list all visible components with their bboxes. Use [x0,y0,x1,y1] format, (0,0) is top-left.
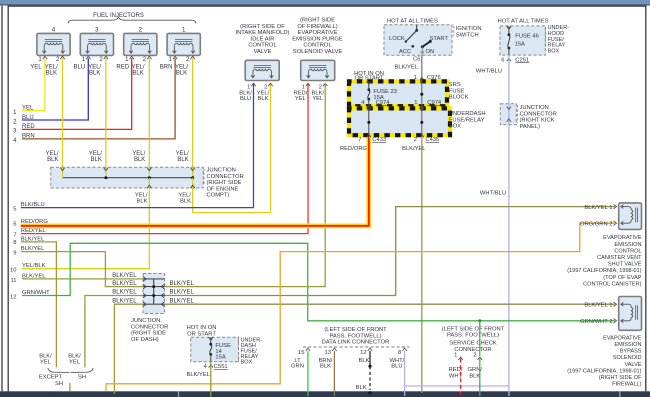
svg-text:(1997 CALIFORNIA, 1998-01): (1997 CALIFORNIA, 1998-01) [567,268,641,274]
svg-text:BLK/YEL: BLK/YEL [170,298,195,304]
service check connector label [442,326,505,353]
svg-text:OR START: OR START [187,331,216,337]
node label row 1 [13,105,34,116]
service check bracket [454,352,482,360]
svg-text:SHUT VALVE: SHUT VALVE [608,262,642,268]
wire RED/YEL purge pin1 to row7 [21,83,308,233]
svg-text:C974: C974 [376,100,391,106]
svg-text:CONNECTOR: CONNECTOR [520,111,557,117]
svg-text:BLU: BLU [240,96,251,102]
wire RED/ORG highlighted [21,137,369,226]
svg-text:BLK/YEL: BLK/YEL [22,273,46,279]
svg-text:12: 12 [10,294,16,300]
wire LT GRN dlc pin15 [307,351,309,396]
svg-text:START: START [430,36,449,42]
svg-text:EVAPORATIVE: EVAPORATIVE [603,235,642,241]
svg-text:BLK/BLU: BLK/BLU [21,202,45,208]
svg-text:(RIGHT SIDE OF: (RIGHT SIDE OF [599,375,642,381]
node label row 4 [13,134,35,145]
fuel injector 3 [73,27,113,77]
svg-text:SOLENOID: SOLENOID [613,355,642,361]
svg-text:CONNECTOR: CONNECTOR [207,174,244,180]
svg-text:(RIGHT SIDE: (RIGHT SIDE [300,18,335,24]
svg-text:(RIGHT SIDE: (RIGHT SIDE [131,331,166,337]
ignition switch S1 [384,25,452,55]
wire injector 4 pin1 YEL [22,58,45,110]
wire ORG canister vent [106,223,615,391]
label BLK/YEL dash row4 left [112,298,137,304]
svg-text:EVAPORATIVE: EVAPORATIVE [603,335,642,341]
label BLK/YEL dash right [170,281,195,287]
under-dash fuse relay box label F14 [239,338,263,366]
under-hood fuse relay box label [546,25,570,55]
wire BLK/YEL row11 [22,278,143,280]
svg-text:8: 8 [13,240,16,246]
svg-text:(RIGHT SIDE OF: (RIGHT SIDE OF [240,24,285,30]
svg-text:INTAKE MANIFOLD): INTAKE MANIFOLD) [235,30,289,36]
svg-text:LOCK: LOCK [389,36,405,42]
svg-text:13: 13 [325,350,331,356]
svg-text:15A: 15A [515,41,525,47]
svg-text:BLK: BLK [469,373,480,379]
svg-text:VALVE: VALVE [254,49,272,55]
node label row 2 [13,115,34,126]
svg-text:CONTROL: CONTROL [248,43,277,49]
label BRN/BLK dlc [319,358,333,370]
svg-text:BLK: BLK [180,199,191,205]
svg-text:YEL: YEL [295,96,307,102]
svg-text:BLK/YEL: BLK/YEL [112,290,137,296]
evap bypass solenoid valve U-BYP [580,297,641,331]
wire injector 2 pin2 YEL/BLK [148,58,150,167]
svg-text:SWITCH: SWITCH [456,33,479,39]
wire BLK/YEL ignition to SRS [394,55,440,81]
window top bar [0,0,650,6]
label YEL/BLK above junction [176,151,189,163]
svg-text:GRN/WHT 2: GRN/WHT 2 [580,319,612,325]
wire BLK/YEL dash row3 to SH [85,296,143,368]
hot at all times label ignition [387,18,438,24]
svg-text:5: 5 [13,207,16,213]
svg-text:BRN: BRN [22,134,35,140]
svg-text:RED: RED [116,65,129,71]
svg-text:BLU: BLU [73,65,85,71]
node label row 7 RED/YEL [13,228,46,238]
wire GRN/WHT row12 long path [22,243,615,320]
svg-text:FUSE: FUSE [449,88,465,94]
svg-text:GRN: GRN [291,364,304,370]
node C251 [501,57,529,63]
fuse 23 [367,81,397,101]
svg-text:EXCEPT: EXCEPT [39,375,63,381]
svg-text:EMISSION: EMISSION [614,242,641,248]
node label row 5 BLK/BLU [13,202,44,213]
svg-text:VALVE: VALVE [624,362,641,368]
wire BLK/YEL purge pin2 to dash junction row2 [165,83,326,286]
wire WHT/BLU link above bar [405,385,509,387]
svg-text:(RIGHT SIDE: (RIGHT SIDE [207,180,242,186]
svg-text:RED/ORG: RED/ORG [21,219,49,225]
svg-text:EMISSION PURGE: EMISSION PURGE [292,36,343,42]
svg-text:8: 8 [398,350,401,356]
svg-text:BLK: BLK [177,157,188,163]
svg-text:BLK: BLK [134,157,145,163]
svg-text:BLK/YEL: BLK/YEL [112,281,137,287]
svg-text:BLK/YEL 1: BLK/YEL 1 [584,205,612,211]
label RED/ORG below box [340,146,368,152]
svg-text:BLK/YEL: BLK/YEL [402,146,426,152]
svg-text:BLOCK: BLOCK [449,95,469,101]
svg-text:CONTROL CANISTER): CONTROL CANISTER) [583,281,642,287]
svg-text:BLK: BLK [359,358,370,364]
svg-text:BYPASS: BYPASS [620,349,642,355]
svg-text:BLK/YEL: BLK/YEL [170,281,195,287]
fuel injectors brace [68,17,196,23]
node C6 [413,56,420,62]
svg-text:BLK: BLK [137,199,148,205]
hot in on or start label SRS [354,71,384,82]
svg-text:7: 7 [13,232,16,238]
svg-text:SRS: SRS [449,82,461,88]
svg-text:IGNITION: IGNITION [456,26,482,32]
svg-text:RED/YEL: RED/YEL [21,228,47,234]
svg-text:C435: C435 [425,137,439,143]
svg-text:10: 10 [10,268,16,274]
svg-text:11: 11 [10,278,16,284]
evap bypass solenoid valve label [567,335,642,387]
svg-text:SOLENOID VALVE: SOLENOID VALVE [293,49,343,55]
svg-text:OF DASH): OF DASH) [131,337,159,343]
wire BLK/YEL fuse14 to bottom [186,362,210,397]
under-dash fuse relay box F14 [191,337,239,362]
svg-text:HOT AT ALL TIMES: HOT AT ALL TIMES [498,18,549,24]
svg-text:9: 9 [13,250,16,256]
svg-text:C433: C433 [372,137,386,143]
svg-text:BLK/YEL: BLK/YEL [21,236,45,242]
label BLK/YEL below box [402,146,426,152]
wire ign through boxes [414,80,442,143]
svg-text:HOT IN ON: HOT IN ON [187,325,217,331]
label YEL/BLK below junction c3 [135,193,148,205]
label YEL/BLK above junction [89,151,102,163]
svg-text:(RIGHT KICK: (RIGHT KICK [520,118,555,124]
fuel injector 4 [30,27,70,77]
svg-text:1: 1 [414,100,417,106]
svg-text:BOX: BOX [241,360,253,366]
svg-text:DATA LINK CONNECTOR: DATA LINK CONNECTOR [322,340,390,346]
evap purge solenoid valve label [292,18,343,56]
label BLK/YEL dash row1 left [112,273,137,279]
wire injector 4 pin2 YEL/BLK [62,58,64,167]
evap canister vent shut valve label [567,235,642,287]
label YEL/BLK above junction [132,151,145,163]
wire BLK/YEL merge stub [47,383,70,397]
junction connector J/C engine compt box [51,167,203,188]
svg-text:YEL: YEL [22,105,34,111]
wire YEL/BLK junction to IAC pin2 [193,83,271,212]
svg-text:EVAPORATIVE: EVAPORATIVE [297,30,337,36]
svg-text:ACC: ACC [399,49,411,55]
svg-text:BLK: BLK [356,385,367,391]
label BLK/YEL dash row3 left [112,290,137,296]
label SH [78,375,86,381]
svg-text:YEL: YEL [40,360,52,366]
svg-text:JUNCTION: JUNCTION [520,105,549,111]
svg-text:C551: C551 [214,364,228,370]
node label row 11 [10,273,46,283]
svg-text:2: 2 [264,84,267,90]
under-hood fuse relay box F46 [500,26,545,55]
SRS fuse block box [349,81,447,106]
svg-text:FUSE 23: FUSE 23 [373,89,397,95]
svg-text:ORG/GRN 2: ORG/GRN 2 [580,222,613,228]
wire YEL/BLK junction to row10 [22,188,149,269]
svg-text:IDLE AIR: IDLE AIR [251,36,275,42]
svg-text:PANEL): PANEL) [520,124,541,130]
svg-text:SH: SH [78,375,86,381]
svg-text:GRN/WHT: GRN/WHT [22,290,50,296]
svg-text:COMPT): COMPT) [207,193,230,199]
svg-text:BLK/: BLK/ [68,353,81,359]
svg-text:FUSE 46: FUSE 46 [515,34,539,40]
wire WHT/BLU kick junction to bottom [480,125,509,396]
svg-text:PASS. FOOTWELL): PASS. FOOTWELL) [447,333,499,339]
label YEL/BLK below junction c4 [178,193,191,205]
svg-text:12: 12 [360,350,366,356]
svg-text:C6: C6 [413,56,420,62]
node C551 [204,364,228,370]
svg-text:BLK/YEL: BLK/YEL [394,64,418,70]
label BLK/YEL except-sh [39,353,52,365]
wire injector 1 pin2 YEL/BLK [192,58,194,167]
svg-text:CONTROL: CONTROL [614,248,641,254]
svg-text:2: 2 [319,84,322,90]
svg-text:BLK/YEL: BLK/YEL [186,372,210,378]
svg-text:BLK: BLK [320,364,331,370]
svg-text:6: 6 [13,221,16,227]
svg-text:SH: SH [55,381,63,387]
svg-text:YEL: YEL [312,96,324,102]
wire BLK/YEL C435 to bottom [421,137,423,393]
svg-text:BLU: BLU [391,364,402,370]
svg-text:BRN: BRN [160,65,173,71]
wire WHT/BLU fuse46 to kick junction [476,55,509,104]
node label row 6 RED/ORG [13,219,48,228]
junction connector dash label [131,318,168,343]
fuel injector 1 [160,27,201,77]
svg-text:1: 1 [454,352,457,358]
svg-text:RED/ORG: RED/ORG [340,146,368,152]
node label row 10 [10,263,46,273]
wire RED/WHT service check [460,359,462,397]
svg-text:2: 2 [139,27,143,34]
hot at all times label fuse46 [498,18,549,24]
svg-text:WHT/BLU: WHT/BLU [480,190,506,196]
svg-text:15A: 15A [215,355,225,361]
junction connector engine compt label [204,168,244,199]
svg-text:PASS. FOOTWELL): PASS. FOOTWELL) [329,333,381,339]
label EXCEPT SH [39,375,63,387]
label BLK/YEL dash right [170,290,195,296]
svg-text:2: 2 [414,137,417,143]
svg-text:BLK: BLK [132,71,143,77]
svg-text:BLK: BLK [91,157,102,163]
svg-text:C251: C251 [515,57,529,63]
idle air control valve U-IAC [239,60,279,102]
label WHT/BLU dlc [389,358,404,370]
fuel injectors label [93,13,144,19]
ignition switch label [454,26,482,39]
brace except-sh [48,368,93,372]
svg-text:2: 2 [473,352,476,358]
svg-text:BLK/YEL 1: BLK/YEL 1 [584,303,612,309]
node label row 12 [10,290,50,301]
wire injector 1 pin1 BRN [22,58,175,139]
svg-text:CONTROL: CONTROL [303,43,332,49]
svg-text:BLK: BLK [46,71,57,77]
data link connector bracket [298,347,409,356]
wire BLK/YEL dash row4 to bottom [114,304,143,394]
svg-text:HOT AT ALL TIMES: HOT AT ALL TIMES [387,18,438,24]
svg-text:1: 1 [302,84,305,90]
junction connector engine compt internals [60,167,195,188]
wire BLK/YEL row8 [21,242,57,367]
svg-text:(1997 CALIFORNIA, 1998-01): (1997 CALIFORNIA, 1998-01) [567,368,641,374]
svg-text:15: 15 [298,350,304,356]
svg-text:YEL/BLK: YEL/BLK [22,263,46,269]
label BLK dlc [359,358,370,364]
wire BLK/YEL dash row4 to bypass valve [165,303,615,305]
svg-text:JUNCTION: JUNCTION [207,168,236,174]
underdash fuse relay box [349,108,450,135]
svg-text:EMISSION: EMISSION [614,342,641,348]
svg-text:BLK: BLK [89,71,100,77]
wire injector 3 pin2 YEL/BLK [105,58,107,167]
wire BRN/BLK dlc pin13 [333,351,335,396]
svg-text:BLK/YEL: BLK/YEL [21,246,45,252]
svg-text:FIREWALL): FIREWALL) [612,382,642,388]
svg-text:(LEFT SIDE OF FRONT: (LEFT SIDE OF FRONT [324,327,387,333]
evap purge solenoid valve U-PURGE [293,60,334,102]
SRS fuse block label [449,82,469,101]
svg-text:BLU: BLU [22,115,34,121]
fuel injector 2 [116,27,157,77]
junction connector right side of dash box [143,274,165,314]
wire BLK/BLU IAC pin1 to row5 [21,83,254,207]
label YEL/BLK above junction [45,151,58,163]
svg-text:C974: C974 [427,100,442,106]
junction connector right kick panel label [518,105,557,130]
svg-text:BLK/YEL: BLK/YEL [112,298,137,304]
label RED/WHT [449,367,463,379]
svg-text:1: 1 [247,84,250,90]
node label row 8 [13,236,45,246]
hot in on or start label fuse14 [187,325,217,337]
wire BLK/YEL dash row3 to vent valve [165,207,615,296]
svg-text:7: 7 [358,137,361,143]
svg-text:BLK: BLK [47,157,58,163]
wire fuse23 through boxes [358,99,390,143]
svg-text:RED: RED [22,124,35,130]
svg-text:UNDERDASH: UNDERDASH [449,111,486,117]
svg-text:JUNCTION: JUNCTION [131,318,160,324]
svg-text:BLK/YEL: BLK/YEL [47,392,70,397]
wire injector 2 pin1 RED [22,58,132,129]
svg-text:YEL: YEL [69,360,81,366]
label BLK/YEL dash right [170,298,195,304]
svg-text:4: 4 [52,27,56,34]
svg-text:SERVICE CHECK: SERVICE CHECK [449,341,496,347]
svg-text:YEL: YEL [30,65,42,71]
svg-text:WHT/BLU: WHT/BLU [476,68,502,74]
bottom dark bar [0,391,650,397]
idle air control valve label [235,24,289,55]
svg-text:BLK/: BLK/ [39,353,52,359]
svg-text:FUSE/RELAY: FUSE/RELAY [449,117,485,123]
wire injector 3 pin1 BLU [22,58,88,120]
svg-text:BOX: BOX [548,49,560,55]
label GRN/BLK [468,367,483,379]
wire BLK dlc pin12 [356,351,372,397]
svg-text:BLK/YEL: BLK/YEL [170,290,195,296]
node label row 3 [13,124,35,135]
wire BLK/YEL row9 [21,252,143,287]
label BLK/YEL sh [68,353,81,365]
data link connector label [322,327,390,346]
node label row 9 [13,246,45,256]
wire GRN/BLK service check [478,319,481,396]
svg-text:1: 1 [182,27,186,34]
svg-text:ON: ON [426,49,435,55]
evap canister vent shut valve U-VENT [580,203,642,230]
wire WHT/BLU dlc pin8 [404,351,406,396]
svg-text:BLK: BLK [176,71,187,77]
svg-text:BLK/YEL: BLK/YEL [112,273,137,279]
svg-text:BOX: BOX [449,124,461,130]
underdash fuse relay box label [449,111,486,130]
svg-text:6: 6 [501,57,504,63]
svg-text:CANISTER VENT: CANISTER VENT [597,255,642,261]
svg-text:OF FIREWALL): OF FIREWALL) [297,24,337,30]
page left edge line [1,6,3,392]
label LT GRN [291,358,304,370]
label BLK/YEL dash row2 left [112,281,137,287]
svg-text:(TOP OF EVAP: (TOP OF EVAP [603,275,642,281]
svg-text:BLK: BLK [258,96,269,102]
junction connector right kick panel [500,104,516,125]
svg-text:OF ENGINE: OF ENGINE [207,186,239,192]
svg-text:CONNECTOR: CONNECTOR [131,324,168,330]
junction connector dash internals [143,277,165,307]
svg-text:(LEFT SIDE OF FRONT: (LEFT SIDE OF FRONT [442,326,505,332]
svg-text:3: 3 [95,27,99,34]
